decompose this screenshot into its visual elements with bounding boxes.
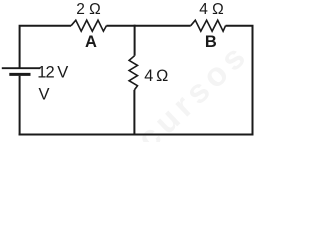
svg-text:V: V — [39, 85, 50, 103]
svg-text:4 Ω: 4 Ω — [199, 1, 224, 18]
wire top-left segment — [20, 26, 72, 68]
wire middle branch top — [134, 25, 136, 56]
resistor R_mid 4ohm vertical zigzag — [129, 56, 137, 90]
resistor R_B 4ohm zigzag — [191, 20, 226, 31]
svg-text:2 Ω: 2 Ω — [76, 1, 101, 18]
wire middle branch bottom — [133, 90, 135, 135]
battery V long plate — [2, 67, 41, 69]
wire top-right + right side + bottom — [19, 26, 253, 135]
wire top-middle segment — [107, 25, 191, 27]
wire left-bottom segment (below battery) — [19, 76, 21, 136]
svg-text:B: B — [205, 33, 217, 51]
battery V short plate — [9, 73, 30, 76]
svg-text:12 V: 12 V — [37, 64, 68, 82]
svg-text:4 Ω: 4 Ω — [144, 67, 168, 85]
svg-text:A: A — [85, 33, 97, 51]
resistor R_A 2ohm zigzag — [71, 20, 106, 31]
